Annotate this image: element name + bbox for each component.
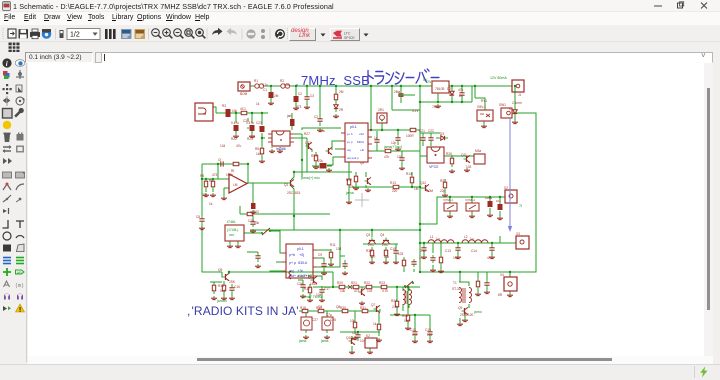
svg-text:X(7M)-1: X(7M)-1: [443, 198, 454, 202]
svg-text:10k: 10k: [254, 221, 260, 225]
svg-text:X3: X3: [516, 232, 520, 236]
svg-text:22u: 22u: [318, 159, 324, 163]
svg-text:1/2: 1/2: [70, 32, 80, 39]
svg-text:47k: 47k: [349, 185, 355, 189]
svg-text:t746L: t746L: [227, 220, 236, 224]
svg-text:Q1: Q1: [284, 183, 288, 187]
svg-text:2M: 2M: [274, 94, 279, 98]
svg-text:C9: C9: [318, 253, 322, 257]
svg-text:4.7k: 4.7k: [382, 289, 388, 293]
svg-text:Q3: Q3: [366, 233, 370, 237]
svg-text:47u: 47u: [236, 144, 242, 148]
svg-text:R18: R18: [300, 306, 306, 310]
svg-text:R14: R14: [406, 172, 412, 176]
svg-text:2SC: 2SC: [382, 243, 389, 247]
svg-text:R13: R13: [390, 181, 396, 185]
svg-text:473: 473: [412, 333, 418, 337]
svg-text:7t: 7t: [519, 204, 522, 208]
svg-text:R12: R12: [346, 178, 352, 182]
svg-text:(1745L): (1745L): [227, 228, 238, 232]
svg-text:i: i: [6, 60, 8, 68]
svg-text:10k: 10k: [384, 255, 390, 259]
svg-text:471: 471: [419, 256, 425, 260]
svg-text:2Ma: 2Ma: [394, 90, 400, 94]
svg-text:2SK: 2SK: [229, 280, 236, 284]
svg-text:8R: 8R: [498, 293, 503, 297]
svg-text:C16: C16: [234, 285, 240, 289]
svg-text:R15: R15: [366, 249, 372, 253]
svg-text:C26: C26: [297, 282, 303, 286]
svg-text:R1: R1: [254, 79, 258, 83]
svg-text:2SC1815: 2SC1815: [287, 191, 301, 195]
svg-text:D2: D2: [459, 94, 463, 98]
svg-text:C20: C20: [352, 331, 358, 335]
svg-text:1u: 1u: [470, 237, 474, 241]
svg-text:Cf: Cf: [218, 158, 221, 162]
svg-text:103: 103: [466, 165, 472, 169]
svg-text:jama(+) mic: jama(+) mic: [300, 176, 320, 180]
svg-text:R20: R20: [337, 281, 343, 285]
svg-text:103: 103: [397, 155, 403, 159]
svg-text:K2: K2: [366, 334, 370, 338]
svg-text:SPICE: SPICE: [344, 36, 355, 40]
svg-text:473: 473: [296, 105, 302, 109]
svg-text:100k: 100k: [226, 173, 233, 177]
svg-text:R11: R11: [330, 243, 336, 247]
svg-text:22p: 22p: [440, 189, 446, 193]
svg-text:10Ma: 10Ma: [485, 196, 492, 200]
svg-text:10k: 10k: [340, 289, 346, 293]
svg-text:10u: 10u: [320, 129, 326, 133]
svg-text:+02: +02: [359, 132, 364, 136]
svg-text:0.47u: 0.47u: [231, 121, 239, 125]
svg-text:p+ b: p+ b: [347, 132, 353, 136]
svg-text:R31: R31: [360, 306, 366, 310]
svg-text:R26: R26: [446, 152, 452, 156]
svg-text:jam: jam: [286, 114, 292, 118]
svg-text:, 'RADIO KITS IN JA': , 'RADIO KITS IN JA': [187, 304, 299, 318]
svg-text:104: 104: [316, 293, 322, 297]
svg-text:LTC: LTC: [344, 32, 351, 36]
svg-text:1k: 1k: [256, 102, 260, 106]
svg-text:2V: 2V: [427, 80, 432, 84]
svg-text:2R: 2R: [339, 108, 344, 112]
svg-text:103: 103: [398, 252, 404, 256]
svg-text:2SC: 2SC: [368, 243, 375, 247]
svg-text:C15: C15: [390, 247, 396, 251]
svg-text:L2: L2: [464, 235, 468, 239]
svg-text:7.0M: 7.0M: [426, 189, 433, 193]
svg-text:(m): (m): [15, 283, 24, 289]
svg-text:D3: D3: [440, 132, 444, 136]
svg-text:47u: 47u: [458, 88, 464, 92]
svg-text:1k: 1k: [209, 202, 213, 206]
svg-text:1u: 1u: [374, 136, 378, 140]
svg-text:R17: R17: [304, 287, 310, 291]
svg-text:Q2: Q2: [360, 161, 364, 165]
svg-text:SW1: SW1: [499, 103, 506, 107]
svg-text:R23: R23: [379, 281, 385, 285]
svg-text:Q12: Q12: [420, 181, 426, 185]
svg-text:Q10: Q10: [346, 336, 352, 340]
svg-text:out+ a out+ p: out+ a out+ p: [289, 274, 310, 278]
svg-text:220: 220: [392, 189, 398, 193]
svg-text:G5V-1: G5V-1: [477, 105, 486, 109]
svg-text:2M: 2M: [339, 90, 344, 94]
svg-text:X7a: X7a: [326, 313, 332, 317]
svg-text:C28: C28: [330, 318, 336, 322]
svg-text:C19: C19: [425, 328, 431, 332]
svg-text:Q13: Q13: [305, 141, 311, 145]
svg-text:78L05: 78L05: [435, 87, 445, 91]
svg-text:T1: T1: [453, 281, 457, 285]
svg-text:104: 104: [336, 247, 342, 251]
svg-text:AB: AB: [17, 270, 23, 275]
svg-text:R3: R3: [222, 104, 226, 108]
svg-text:X2: X2: [504, 186, 508, 190]
svg-text:jama: jama: [320, 339, 328, 343]
svg-text:Q9: Q9: [458, 306, 462, 310]
svg-text:J1: J1: [518, 93, 522, 97]
svg-text:C22: C22: [428, 129, 434, 133]
svg-text:jama: jama: [345, 191, 354, 195]
svg-text:C27: C27: [312, 318, 318, 322]
svg-text:X(7M)-2: X(7M)-2: [465, 198, 476, 202]
svg-text:osj +3t: osj +3t: [289, 269, 303, 273]
svg-text:100: 100: [404, 319, 410, 323]
svg-text:2.1mm: 2.1mm: [512, 101, 522, 105]
svg-text:R22: R22: [231, 137, 237, 141]
svg-text:104: 104: [220, 289, 226, 293]
svg-text:M3a: M3a: [475, 149, 481, 153]
svg-text:7MHz SSB: 7MHz SSB: [301, 73, 370, 88]
svg-text:R16: R16: [218, 284, 224, 288]
svg-text:4C1: 4C1: [240, 107, 246, 111]
svg-text:C13: C13: [445, 249, 451, 253]
svg-text:jama4: jama4: [216, 299, 227, 303]
svg-text:R30: R30: [340, 306, 346, 310]
svg-text:R33: R33: [311, 154, 317, 158]
svg-text:R22: R22: [364, 281, 370, 285]
svg-text:100R: 100R: [406, 134, 414, 138]
svg-text:Q4: Q4: [380, 233, 384, 237]
svg-text:Q6: Q6: [308, 275, 312, 279]
svg-text:10k: 10k: [232, 109, 238, 113]
svg-text:C2: C2: [314, 115, 318, 119]
svg-text:LM: LM: [233, 183, 238, 187]
svg-text:BOM: BOM: [240, 92, 248, 96]
svg-text:10k: 10k: [350, 319, 356, 323]
svg-text:R19: R19: [316, 306, 322, 310]
svg-text:R10: R10: [253, 210, 259, 214]
svg-text:vco: vco: [229, 233, 234, 237]
svg-text:Q7: Q7: [371, 303, 375, 307]
svg-text:C2: C2: [298, 92, 302, 96]
svg-text:C23: C23: [256, 121, 262, 125]
svg-text:471: 471: [487, 256, 493, 260]
svg-text:7805: 7805: [432, 105, 439, 109]
svg-text:pll-1: pll-1: [350, 125, 357, 129]
svg-text:p+b +0j: p+b +0j: [289, 253, 304, 257]
svg-text:103: 103: [250, 135, 256, 139]
svg-text:jamo: jamo: [473, 310, 482, 314]
svg-text:,: ,: [296, 78, 298, 87]
svg-text:473: 473: [212, 173, 218, 177]
svg-text:C8: C8: [196, 215, 200, 219]
svg-text:pll-1: pll-1: [297, 247, 304, 251]
svg-text:C21: C21: [419, 129, 425, 133]
svg-text:1815: 1815: [310, 282, 317, 286]
svg-text:VFO2: VFO2: [429, 165, 438, 169]
svg-text:2.2k: 2.2k: [392, 305, 398, 309]
svg-text:12V 80mA: 12V 80mA: [490, 76, 507, 80]
svg-text:C18: C18: [410, 328, 416, 332]
svg-text:1M: 1M: [414, 187, 419, 191]
svg-text:jama: jama: [298, 339, 306, 343]
svg-text:C3: C3: [310, 94, 314, 98]
svg-text:1k: 1k: [373, 322, 377, 326]
svg-text:104: 104: [220, 144, 226, 148]
svg-text:RY1: RY1: [481, 99, 487, 103]
svg-text:D2: D2: [447, 87, 451, 91]
svg-text:R24: R24: [391, 299, 397, 303]
svg-text:C1: C1: [263, 88, 267, 92]
svg-text:Q5: Q5: [218, 268, 222, 272]
svg-text:102: 102: [453, 256, 459, 260]
svg-text:2SC2120: 2SC2120: [460, 313, 474, 317]
svg-text:472: 472: [354, 289, 360, 293]
svg-text:jama(+7mc): jama(+7mc): [383, 145, 402, 149]
svg-text:lm386: lm386: [276, 147, 286, 151]
svg-text:R25: R25: [402, 314, 408, 318]
svg-text:p+ p: p+ p: [347, 140, 353, 144]
svg-text:1u: 1u: [436, 237, 440, 241]
svg-text:out outr p: out outr p: [347, 156, 359, 160]
svg-text:L1: L1: [430, 235, 434, 239]
svg-text:4.7u: 4.7u: [262, 83, 268, 87]
svg-text:C12: C12: [420, 249, 426, 253]
svg-text:D1: D1: [399, 94, 403, 98]
svg-text:5V: 5V: [423, 78, 428, 82]
svg-text:Q11: Q11: [461, 153, 467, 157]
svg-text:K1: K1: [509, 107, 513, 111]
svg-text:630-b: 630-b: [357, 140, 365, 144]
svg-text:5.1V: 5.1V: [412, 109, 419, 113]
svg-text:103: 103: [367, 289, 373, 293]
svg-text:R8: R8: [200, 174, 204, 178]
svg-text:2R1: 2R1: [378, 108, 384, 112]
svg-text:X4: X4: [500, 273, 504, 277]
svg-text:1k2: 1k2: [256, 152, 261, 156]
svg-text:104: 104: [427, 333, 433, 337]
svg-text:470: 470: [370, 255, 376, 259]
svg-text:R32: R32: [440, 179, 446, 183]
svg-text:+3t: +3t: [360, 148, 364, 152]
svg-text:C24: C24: [243, 119, 249, 123]
svg-text:R21: R21: [351, 281, 357, 285]
svg-text:10a: 10a: [496, 199, 501, 203]
svg-text:104: 104: [284, 83, 290, 87]
svg-text:osj: osj: [347, 148, 351, 152]
svg-text:22k: 22k: [202, 193, 208, 197]
svg-text:C7: C7: [449, 93, 453, 97]
svg-text:104: 104: [360, 339, 366, 343]
svg-text:ST-32: ST-32: [452, 287, 461, 291]
svg-text:p+ p 630-b: p+ p 630-b: [289, 261, 307, 265]
svg-text:R27: R27: [304, 132, 310, 136]
svg-text:C14: C14: [471, 249, 477, 253]
svg-text:C17: C17: [324, 287, 330, 291]
svg-text:R6: R6: [255, 147, 259, 151]
svg-text:R9: R9: [209, 179, 213, 183]
svg-text:47k: 47k: [384, 155, 390, 159]
